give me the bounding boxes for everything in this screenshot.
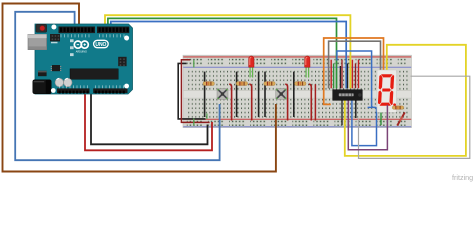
wire yellow big loop: below chip to right side into top rail near display <box>345 45 466 156</box>
breadboard top blue rail line <box>183 66 411 68</box>
wire black jumper 3 <box>258 72 260 117</box>
wire green short above chip <box>333 63 335 88</box>
wire black bus jumper: breadboard left edge top rail to bottom rail <box>178 63 205 119</box>
wire black short 2 above chip <box>347 63 349 88</box>
LED D1 <box>249 56 254 78</box>
IC U1 74HC595 <box>333 90 363 101</box>
capacitor C1 <box>55 78 63 86</box>
header top right strip <box>97 27 129 34</box>
wire green: Arduino top pin to breadboard near chip <box>108 18 337 88</box>
power jack <box>33 80 51 94</box>
pin label silkscreen ticks <box>60 34 125 88</box>
pushbutton S1 <box>217 89 228 100</box>
atmega chip <box>70 69 118 80</box>
LED D2 <box>305 56 310 78</box>
wire gray arc: chip area to 7-seg display <box>329 41 381 88</box>
header bottom left strip <box>57 88 90 93</box>
header top left strip <box>59 27 96 34</box>
7-segment display <box>377 70 397 112</box>
wire blue arc: top rail over to display left then below board loop back to chip row <box>337 51 377 146</box>
arduino logo <box>74 41 81 48</box>
icsp header top left <box>50 34 60 41</box>
wire black: Arduino bottom pin to breadboard bottom power rail <box>91 93 208 145</box>
wire red short 2 above chip <box>351 60 353 89</box>
wire black jumper 5 <box>293 72 295 117</box>
wire orange arc: chip area to 7-seg display <box>324 38 384 104</box>
mounting hole bottom right <box>124 84 129 89</box>
breadboard top red rail line <box>183 56 411 58</box>
icsp header right <box>118 57 126 66</box>
Arduino Uno board <box>28 24 133 94</box>
wire black jumper 2 <box>236 72 238 117</box>
wire brown: Arduino top pin around left and bottom to breadboard under button 2 <box>3 4 276 172</box>
wire black short above chip <box>339 66 341 88</box>
wire purple loop: below chip to display bottom pin <box>348 101 387 150</box>
wire blue elbow extension <box>368 106 372 108</box>
header bottom right strip <box>93 88 127 93</box>
resistor R5 horizontal below display <box>392 106 403 109</box>
wire red jumper 5 <box>314 84 316 120</box>
reset button <box>36 24 47 32</box>
wire black jumper 1 <box>204 72 206 117</box>
wire red jumper 1 <box>229 84 231 120</box>
wire maroon bus jumper: breadboard left edge top rail to bottom rail <box>181 60 209 123</box>
mounting hole bottom left <box>51 88 56 93</box>
wire black long below chip <box>341 101 343 126</box>
usb connector <box>28 34 47 49</box>
wire gray loop: display area right side <box>359 76 470 158</box>
breadboard main grid holes rows f-j <box>187 98 409 118</box>
wire red jumper 2 <box>249 84 251 120</box>
wire black jumper 4 <box>264 72 266 117</box>
wire blue 2: Arduino top pin to breadboard near chip <box>111 22 346 89</box>
wire red short mid above chip <box>341 60 343 89</box>
breadboard main grid holes rows a-e <box>187 70 409 91</box>
wire green stub near black wire <box>206 114 208 120</box>
wire green stub top left <box>193 60 195 67</box>
chip label 74HC595 <box>339 93 354 96</box>
resistor R3 <box>264 82 275 86</box>
wire red short 3 above chip <box>358 60 360 89</box>
mounting hole top left <box>51 25 56 30</box>
breadboard bottom power rail holes <box>187 120 406 127</box>
wire green stub bottom left <box>193 119 195 126</box>
usb interface chip <box>52 65 60 71</box>
wire blue: Arduino top pin around left and bottom into breadboard under button 1 <box>15 12 219 160</box>
capacitor C2 <box>64 78 72 86</box>
breadboard body <box>183 55 412 127</box>
voltage regulator <box>38 71 47 76</box>
resistor R4 <box>295 82 306 86</box>
pushbutton S2 <box>276 89 287 100</box>
svg-text:UNO: UNO <box>95 42 106 48</box>
breadboard top power rail holes <box>187 58 406 66</box>
wire red diagonal below display <box>397 112 405 125</box>
breadboard bottom red rail line <box>183 118 411 120</box>
svg-text:ARDUINO: ARDUINO <box>76 50 87 53</box>
wire maroon short above chip <box>355 63 357 88</box>
svg-text:fritzing: fritzing <box>452 173 473 182</box>
resistor R1 <box>203 82 214 86</box>
breadboard bottom blue rail line <box>183 126 411 128</box>
mounting hole top right <box>124 36 129 41</box>
wire yellow: Arduino top pin to breadboard near chip <box>105 15 350 88</box>
wire red: Arduino bottom pin to breadboard bottom power rail <box>85 93 212 151</box>
wire black short below chip <box>355 101 357 119</box>
wire red jumper 4 <box>309 84 311 120</box>
wire red jumper 3 <box>285 84 287 120</box>
wire green short below display <box>380 113 382 126</box>
wire red short above chip <box>330 60 332 89</box>
resistor R2 <box>236 82 247 86</box>
